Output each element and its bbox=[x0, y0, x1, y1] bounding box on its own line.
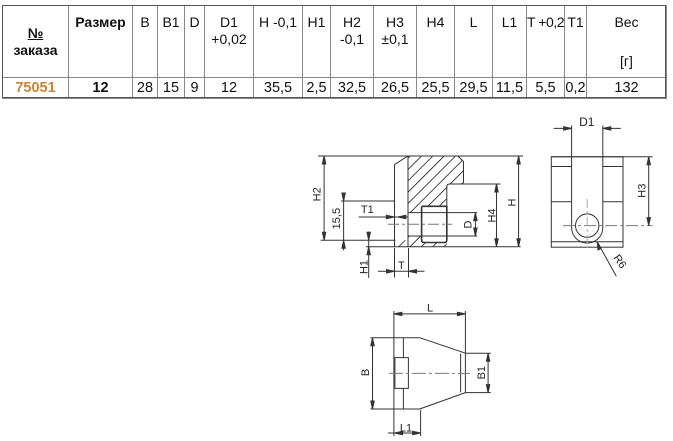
inner rim line upper bbox=[402, 338, 404, 358]
T1 dimension line bbox=[359, 216, 408, 218]
svg-text:R6: R6 bbox=[611, 253, 629, 271]
svg-text:H1: H1 bbox=[359, 260, 371, 274]
svg-text:H3: H3 bbox=[637, 184, 649, 198]
dimension 15,5 bbox=[331, 193, 345, 251]
right edge bbox=[463, 162, 465, 183]
outer left edge bbox=[394, 165, 396, 247]
tab rectangle bbox=[395, 358, 409, 389]
taper bottom edge bbox=[420, 393, 466, 409]
inner wall line bbox=[407, 156, 409, 247]
bore centerline bbox=[388, 223, 452, 225]
foot step line bbox=[551, 241, 623, 243]
upper step line left bbox=[551, 166, 571, 168]
dimension L bbox=[394, 303, 466, 316]
upper step line right bbox=[603, 166, 623, 168]
horizontal centerline bbox=[389, 372, 470, 374]
SECTION-VIEW bbox=[318, 156, 523, 247]
top edge + H3 extension bbox=[551, 156, 652, 158]
notch corner arc bbox=[461, 182, 464, 184]
top-right chamfer bbox=[458, 156, 464, 162]
bore bottom line + D extension bbox=[408, 235, 477, 237]
top-left chamfer bbox=[395, 156, 409, 165]
svg-text:15,5: 15,5 bbox=[331, 208, 343, 229]
svg-text:H: H bbox=[507, 198, 519, 206]
hatched bottom strip left cell bbox=[395, 240, 409, 246]
table outer border frame bbox=[2, 5, 666, 98]
mid step line right bbox=[603, 201, 623, 203]
bore top line + D extension bbox=[408, 212, 477, 214]
bottom surface line bbox=[366, 246, 521, 248]
inner rim line lower bbox=[402, 388, 404, 409]
tab top edge line bbox=[341, 200, 395, 202]
dimension B1 bbox=[465, 353, 490, 392]
TOP-VIEW bbox=[370, 311, 465, 436]
hatched bottom strip under bushing bbox=[422, 243, 447, 247]
dimension T bbox=[378, 248, 425, 278]
hatched body cross-section bbox=[395, 156, 464, 247]
horizontal centerline through bore bbox=[563, 225, 653, 227]
dimension D bbox=[462, 213, 477, 236]
dimension H1 bbox=[359, 232, 371, 279]
svg-text:L: L bbox=[427, 303, 433, 315]
svg-text:B1: B1 bbox=[476, 366, 488, 379]
dimension L1 bbox=[388, 410, 421, 436]
right edge + L extension bbox=[464, 311, 466, 393]
vertical centerline of slot bbox=[586, 199, 588, 248]
dimension B bbox=[360, 338, 374, 409]
hatched bottom strip mid cell bbox=[408, 236, 422, 247]
dimension D1 bbox=[554, 115, 621, 130]
dimension H3 bbox=[637, 157, 651, 226]
svg-text:D: D bbox=[462, 220, 474, 228]
svg-text:T: T bbox=[398, 260, 405, 272]
svg-text:T1: T1 bbox=[361, 204, 374, 216]
taper top edge bbox=[420, 338, 466, 354]
slot left edge + D1 extension bbox=[571, 126, 573, 228]
notch shoulder line + H4 extension bbox=[447, 184, 501, 187]
dimension H4 bbox=[487, 184, 499, 247]
bottom edge + B extension bbox=[370, 408, 420, 410]
svg-text:H4: H4 bbox=[487, 208, 499, 222]
svg-text:D1: D1 bbox=[579, 115, 595, 129]
top surface line bbox=[318, 155, 523, 157]
inner rim right bbox=[460, 354, 462, 393]
radius leader R6 bbox=[597, 242, 628, 276]
dimension table bbox=[2, 5, 667, 99]
bore circle bbox=[576, 214, 599, 237]
body outline rectangle bbox=[551, 157, 623, 247]
svg-text:H2: H2 bbox=[312, 187, 324, 201]
svg-text:B: B bbox=[360, 369, 372, 376]
FRONT-VIEW bbox=[551, 126, 652, 248]
dimension H bbox=[507, 156, 521, 247]
foot top line bbox=[321, 239, 396, 241]
dimension T1 arrows and label bbox=[361, 204, 406, 219]
slot bottom U-arc bbox=[572, 228, 603, 244]
slot right edge + D1 extension bbox=[602, 126, 604, 228]
dimension H2 bbox=[312, 156, 326, 240]
left edge + L extension + L1 extension bbox=[393, 311, 395, 436]
notch vertical wall bbox=[446, 186, 448, 206]
mid step line left bbox=[551, 201, 571, 203]
bushing outline bbox=[422, 206, 447, 242]
svg-text:L1: L1 bbox=[400, 423, 412, 435]
top edge + B extension bbox=[370, 337, 419, 339]
